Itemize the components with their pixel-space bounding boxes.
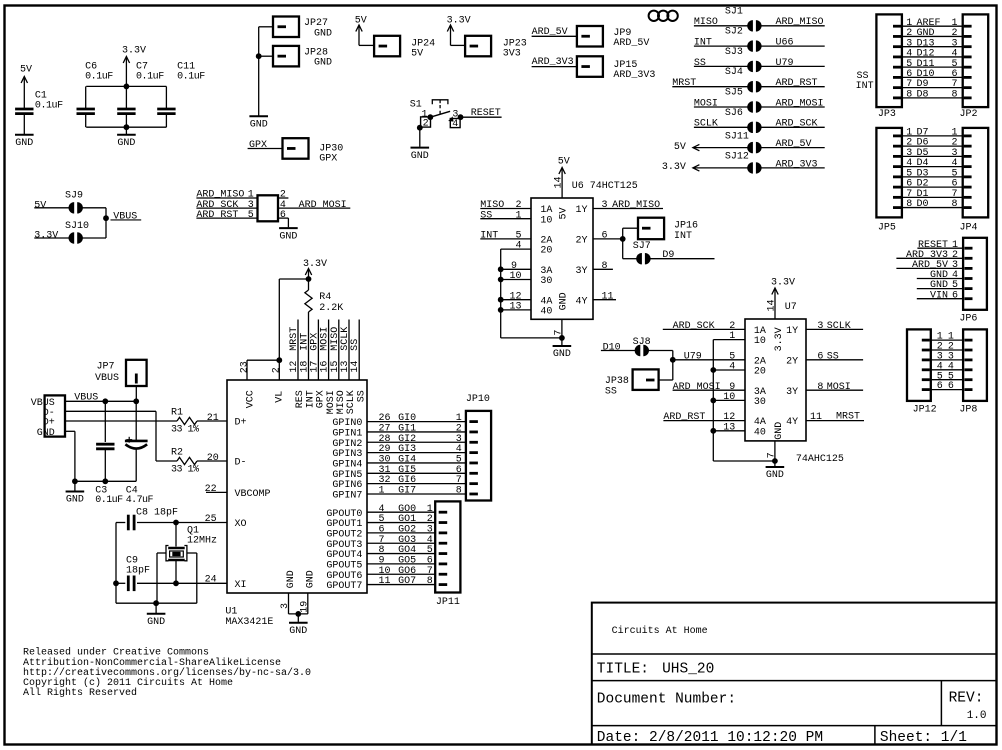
svg-text:JP3: JP3 [878,109,896,120]
svg-text:D8: D8 [917,89,929,100]
ground [279,228,298,242]
wire JP12-JP8 pin 2 [922,342,973,353]
svg-text:U6 74HCT125: U6 74HCT125 [572,181,638,192]
svg-text:ARD_MISO: ARD_MISO [612,200,660,211]
svg-text:14: 14 [554,177,565,189]
svg-text:40: 40 [540,307,552,318]
svg-text:GND: GND [147,617,165,628]
svg-text:MRST: MRST [672,78,696,89]
svg-text:GND: GND [66,495,84,506]
net label ARD_MISO pin 3 [593,200,663,211]
svg-text:ARD_SCK: ARD_SCK [673,321,715,332]
solder jumper SJ10 [34,221,106,244]
connector JP28 [273,46,332,69]
svg-text:SCLK: SCLK [694,119,718,130]
svg-text:5V: 5V [411,49,423,60]
svg-text:R2: R2 [171,448,183,459]
net label ARD_RST U7 [663,412,745,423]
supply 5V [554,157,570,199]
svg-text:U79: U79 [684,351,702,362]
solder jumper SJ7 [633,241,651,264]
solder jumper SJ9 [34,191,106,214]
net label ARD_SCK [196,200,286,211]
svg-text:20: 20 [754,367,766,378]
svg-text:3Y: 3Y [576,266,588,277]
net GND wire JP6 pin 5 [917,280,973,291]
svg-text:7: 7 [553,330,564,336]
net label ARD_3V3 [532,57,577,68]
svg-text:5: 5 [248,210,254,221]
IC U6 74HCT125 [531,198,593,319]
svg-text:SJ4: SJ4 [725,67,743,78]
header JP8 [959,329,986,415]
svg-text:D10: D10 [603,342,621,353]
net GO6 wire pin 10 [367,566,447,577]
label TITLE UHS_20 [597,661,715,677]
net label SS [480,210,531,221]
svg-text:14: 14 [766,300,777,312]
svg-text:SS: SS [605,386,617,397]
net label RESET [461,108,502,119]
svg-text:5: 5 [729,351,735,362]
node VBUS [103,208,141,238]
header JP12 [907,329,937,415]
svg-text:SJ8: SJ8 [633,337,651,348]
svg-text:ARD_MOSI: ARD_MOSI [673,382,721,393]
label U1 MAX3421E [225,606,273,628]
svg-text:SS: SS [356,390,367,402]
svg-text:3: 3 [280,603,291,609]
svg-text:3.3V: 3.3V [303,259,327,270]
svg-text:11: 11 [602,291,614,302]
connector JP16 [638,218,698,242]
net GO2 wire pin 6 [367,524,447,535]
svg-text:GO4: GO4 [398,545,416,556]
svg-text:GI1: GI1 [398,424,416,435]
label Document Number [597,691,736,707]
svg-text:GI7: GI7 [398,486,416,497]
ground [289,623,308,637]
svg-text:2Y: 2Y [786,356,798,367]
svg-text:GND: GND [286,570,297,588]
net label D10 [601,342,637,353]
svg-text:3: 3 [456,434,462,445]
header JP4 [960,128,989,233]
svg-text:10: 10 [509,271,521,282]
svg-text:7: 7 [456,475,462,486]
net GO5 wire pin 9 [367,556,447,567]
svg-text:MISO: MISO [694,17,718,28]
svg-text:5V: 5V [20,65,32,76]
svg-text:VBUS: VBUS [113,211,137,222]
net D1 wire JP5-JP4 pin 7 [893,189,972,200]
wire JP12-JP8 pin 5 [922,371,973,382]
svg-text:8: 8 [906,89,912,100]
net D0 wire JP5-JP4 pin 8 [893,199,972,210]
net D4 wire JP5-JP4 pin 4 [893,158,972,169]
svg-text:GPIN6: GPIN6 [332,480,362,491]
svg-text:U66: U66 [776,38,794,49]
svg-text:5V: 5V [559,207,570,219]
IC U1 MAX3421E [227,380,367,593]
svg-text:21: 21 [207,413,219,424]
svg-text:5V: 5V [355,16,367,27]
svg-text:INT: INT [480,231,498,242]
svg-text:1: 1 [379,486,385,497]
label 74AHC125 [796,454,844,465]
connector ICSP block [258,195,279,221]
svg-text:GI6: GI6 [398,475,416,486]
svg-text:SJ1: SJ1 [725,6,743,17]
svg-text:INT: INT [694,38,712,49]
connector JP27 [273,17,332,40]
resistor R2 [171,448,227,476]
net D5 wire JP5-JP4 pin 3 [893,148,972,159]
svg-text:9: 9 [729,382,735,393]
svg-text:ARD_5V: ARD_5V [776,139,812,150]
ground [15,135,34,149]
label REV [949,691,987,722]
wire usb gnd [65,431,136,490]
connector JP23 [465,36,527,60]
net GI5 wire pin 31 [367,465,478,476]
wire D+ [65,420,177,422]
svg-text:GPOUT3: GPOUT3 [326,540,362,551]
svg-text:TITLE:: TITLE: [597,661,649,677]
svg-text:1Y: 1Y [576,205,588,216]
net label ARD_RST [196,210,286,221]
svg-text:JP5: JP5 [878,222,896,233]
svg-text:GPX: GPX [319,154,337,165]
svg-text:GND: GND [766,470,784,481]
ground [117,135,136,149]
svg-text:19: 19 [300,601,311,613]
ground [411,148,430,162]
svg-text:0.1uF: 0.1uF [95,495,123,506]
wire gnd rail [86,124,166,134]
svg-text:25: 25 [205,514,217,525]
svg-text:ARD_3V3: ARD_3V3 [613,70,655,81]
svg-text:8: 8 [602,261,608,272]
svg-text:4Y: 4Y [576,296,588,307]
svg-text:MAX3421E: MAX3421E [225,617,273,628]
wire [256,27,273,116]
svg-text:13: 13 [723,422,735,433]
ground [147,614,166,628]
svg-text:UHS_20: UHS_20 [662,661,714,677]
svg-text:2Y: 2Y [576,236,588,247]
connector JP7 [95,360,147,402]
capacitor C3 [95,401,123,506]
svg-text:6: 6 [602,231,608,242]
svg-text:GND: GND [289,626,307,637]
svg-text:Released under Creative Common: Released under Creative Commons [23,647,209,659]
svg-text:GO3: GO3 [398,535,416,546]
supply 3.3V [766,278,796,319]
wire U6 pin7 gnd [553,319,565,345]
svg-text:8: 8 [906,199,912,210]
svg-text:5: 5 [427,545,433,556]
svg-text:U7: U7 [785,302,797,313]
svg-text:ARD_MISO: ARD_MISO [776,17,824,28]
wire U6 4Y pin 11 [593,291,616,302]
connector JP9 [577,26,650,49]
svg-text:INT: INT [674,231,692,242]
capacitor C11 [157,61,205,127]
svg-text:3.3V: 3.3V [122,45,146,56]
svg-text:5V: 5V [674,142,686,153]
svg-text:GND: GND [411,151,429,162]
svg-text:Date: 2/8/2011 10:12:20 PM: Date: 2/8/2011 10:12:20 PM [597,730,823,746]
net label ARD_MISO [196,190,288,201]
svg-text:ARD_5V: ARD_5V [613,38,649,49]
svg-text:10: 10 [723,392,735,403]
svg-text:GND: GND [314,28,332,39]
net ARD_5V wire JP6 pin 3 [896,260,972,271]
svg-text:3.3V: 3.3V [771,278,795,289]
svg-text:24: 24 [205,575,217,586]
connector JP15 [577,56,656,81]
svg-text:GPOUT4: GPOUT4 [326,550,362,561]
net label MRST out [806,412,864,424]
svg-text:GND: GND [305,570,316,588]
svg-text:INT: INT [856,81,874,92]
svg-text:6: 6 [817,351,823,362]
svg-text:SS: SS [350,339,361,351]
net label GPX [248,140,283,151]
net GI4 wire pin 30 [367,455,478,466]
net D12 wire JP3-JP2 pin 4 [893,49,972,60]
label Circuits At Home [612,625,708,637]
resistor R1 [171,408,227,436]
wire VBCOMP pin 22 [205,484,227,495]
svg-text:23: 23 [240,361,251,373]
connector JP30 [283,138,344,165]
svg-text:JP8: JP8 [959,405,977,416]
svg-text:8: 8 [379,545,385,556]
net D7 wire JP5-JP4 pin 1 [893,128,972,139]
net GND wire JP3-JP2 pin 2 [893,28,972,39]
solder jumper SJ1 [694,6,825,31]
supply 3.3V [122,45,146,86]
svg-text:2: 2 [423,118,429,129]
svg-text:20: 20 [207,453,219,464]
svg-text:D9: D9 [662,250,674,261]
svg-text:8: 8 [952,199,958,210]
svg-text:18pF: 18pF [126,566,150,577]
svg-text:6: 6 [952,290,958,301]
svg-text:MOSI: MOSI [827,382,851,393]
net label ARD_MOSI [278,200,350,211]
svg-text:1: 1 [515,210,521,221]
svg-text:30: 30 [754,397,766,408]
svg-text:JP2: JP2 [960,109,978,120]
svg-text:U79: U79 [776,58,794,69]
capacitor C4 [125,401,154,506]
svg-text:12MHz: 12MHz [187,536,217,547]
svg-text:4Y: 4Y [786,417,798,428]
svg-text:SJ7: SJ7 [633,241,651,252]
svg-text:4: 4 [729,362,735,373]
svg-text:ARD_RST: ARD_RST [776,78,818,89]
svg-text:22: 22 [205,484,217,495]
wire U7 pin7 gnd [766,441,778,466]
svg-text:D0: D0 [917,199,929,210]
svg-text:XO: XO [235,519,247,530]
net GO7 wire pin 11 [367,576,447,587]
net D8 wire JP3-JP2 pin 8 [893,89,972,100]
svg-text:GPOUT7: GPOUT7 [326,581,362,592]
svg-text:SJ9: SJ9 [65,191,83,202]
header JP11 [435,501,460,608]
mounting holes [649,11,678,21]
wire U1 top stubs [289,320,361,381]
svg-text:13: 13 [509,302,521,313]
svg-text:U1: U1 [225,606,237,617]
svg-text:VL: VL [275,391,286,403]
svg-text:3Y: 3Y [786,387,798,398]
capacitor C7 [117,61,164,127]
svg-text:2: 2 [272,367,283,373]
solder jumper SJ4 [672,67,824,92]
capacitor C6 [77,61,114,127]
pushbutton S1 [410,99,464,130]
solder jumper SJ6 [694,108,825,133]
svg-text:3: 3 [602,200,608,211]
svg-text:JP7: JP7 [97,362,115,373]
ground [766,467,785,481]
label U6 74HCT125 [572,181,638,192]
crystal Q1 12MHz [157,523,217,604]
net label SCLK [806,321,863,332]
node 3.3V rail [86,84,166,90]
svg-text:SJ11: SJ11 [725,131,749,142]
svg-text:GND: GND [279,231,297,242]
wire enable bus U7 [710,331,775,461]
svg-text:GPX: GPX [249,140,267,151]
svg-text:JP11: JP11 [436,597,460,608]
svg-text:GPIN2: GPIN2 [332,439,362,450]
svg-text:SS: SS [827,351,839,362]
svg-text:GPIN7: GPIN7 [332,491,362,502]
svg-text:3.3V: 3.3V [774,327,785,351]
svg-text:20: 20 [540,246,552,257]
svg-text:ARD_RST: ARD_RST [196,210,238,221]
svg-text:D+: D+ [235,418,247,429]
svg-text:GI2: GI2 [398,434,416,445]
net D3 wire JP5-JP4 pin 5 [893,168,972,179]
svg-text:7: 7 [379,535,385,546]
connector USB X1 [31,395,65,438]
wire VCC VL [240,279,309,380]
svg-text:VIN: VIN [930,290,948,301]
svg-text:5V: 5V [558,157,570,168]
supply 3.3V [447,16,471,46]
resistor R4 [305,279,343,380]
wire U6 3Y pin 8 [593,261,613,272]
wire JP12-JP8 pin 3 [922,352,973,363]
net GO1 wire pin 5 [367,514,447,525]
net GI3 wire pin 29 [367,444,478,455]
svg-text:6: 6 [937,381,943,392]
svg-text:14: 14 [350,361,361,373]
license text [23,647,311,700]
svg-text:10: 10 [540,215,552,226]
svg-text:All Rights Reserved: All Rights Reserved [23,687,137,699]
net VIN wire JP6 pin 6 [917,290,973,301]
solder jumper SJ8 [633,337,651,356]
svg-text:SCLK: SCLK [827,321,851,332]
label SS INT [856,71,874,92]
header JP6 [959,238,986,325]
solder jumper SJ2 [694,27,825,52]
svg-text:VBUS: VBUS [74,393,98,404]
connector JP38 [605,369,673,397]
wire JP12-JP8 pin 4 [922,361,973,372]
svg-text:Sheet: 1/1: Sheet: 1/1 [880,730,967,746]
svg-text:12: 12 [723,412,735,423]
svg-text:8: 8 [952,89,958,100]
wire [23,114,25,134]
svg-text:GND: GND [774,422,785,440]
svg-text:ARD_RST: ARD_RST [663,412,705,423]
svg-text:R4: R4 [319,292,331,303]
svg-text:11: 11 [379,576,391,587]
svg-text:33 1%: 33 1% [171,425,199,436]
wire crystal gnd rail [116,523,197,614]
svg-text:SS: SS [480,210,492,221]
net label ARD_5V [532,27,577,38]
net GI7 wire pin 1 [367,486,478,497]
wire SJ8 to U7 2A [648,351,745,381]
net label VBUS [65,393,139,404]
ground [66,492,85,506]
header JP3 [876,14,902,120]
net label MOSI out [806,382,863,393]
svg-text:2.2K: 2.2K [319,303,343,314]
svg-text:GND: GND [117,138,135,149]
net GO3 wire pin 7 [367,535,447,546]
capacitor C9 [113,556,227,592]
svg-text:GND: GND [250,120,268,131]
svg-text:RESET: RESET [471,108,501,119]
svg-text:11: 11 [810,412,822,423]
svg-text:VBUS: VBUS [95,373,119,384]
svg-text:4.7uF: 4.7uF [126,495,154,506]
net D11 wire JP3-JP2 pin 5 [893,59,972,70]
svg-text:R1: R1 [171,408,183,419]
svg-text:6: 6 [280,210,286,221]
title block [592,603,997,745]
solder jumper SJ3 [694,47,825,72]
svg-text:REV:: REV: [949,691,984,707]
solder jumper SJ12 [662,152,825,174]
svg-text:SJ5: SJ5 [725,88,743,99]
svg-text:ARD_MOSI: ARD_MOSI [299,200,347,211]
net GI1 wire pin 27 [367,424,478,435]
svg-text:ARD_MOSI: ARD_MOSI [776,98,824,109]
svg-text:S1: S1 [410,99,422,110]
svg-text:27: 27 [379,424,391,435]
svg-text:ARD_3V3: ARD_3V3 [776,159,818,170]
svg-text:SJ3: SJ3 [725,47,743,58]
svg-text:JP6: JP6 [959,314,977,325]
net label INT [480,231,531,242]
wire [419,128,421,147]
svg-text:Circuits At Home: Circuits At Home [612,625,708,637]
net label MISO [480,200,531,211]
label Sheet [880,730,967,746]
